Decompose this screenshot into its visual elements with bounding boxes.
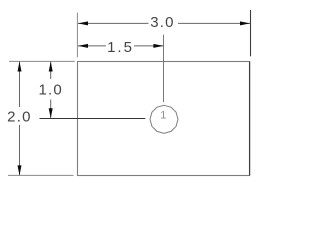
svg-text:1: 1 (160, 110, 166, 122)
arrowhead 1.5 left (78, 44, 88, 48)
extension line right vertical (3.0 dim) (250, 10, 252, 56)
dimension line 3.0 left segment (78, 22, 149, 24)
arrowhead 1.0 top (49, 62, 53, 72)
part outline rectangle (78, 62, 250, 176)
arrowhead 3.0 left (78, 21, 88, 25)
extension line bottom-left horizontal (8, 174, 74, 176)
dimension line 1.5 left segment (78, 45, 106, 47)
dimension line 2.0 upper segment (19, 62, 21, 108)
extension line hole vertical (1.5 dim) (163, 35, 165, 102)
dimension line 1.0 lower segment (50, 100, 52, 119)
extension line hole-center horizontal (40, 118, 146, 120)
arrowhead 3.0 right (240, 21, 250, 25)
extension line left vertical (top dims) (76, 13, 78, 58)
arrowhead 1.5 right (153, 44, 163, 48)
dimension line 2.0 lower segment (19, 125, 21, 175)
svg-text:3.0: 3.0 (150, 14, 174, 31)
extension line top-left horizontal (9, 60, 75, 62)
svg-text:2.0: 2.0 (7, 109, 31, 126)
right edge (darker) (249, 62, 251, 176)
dimension line 1.5 right segment (134, 45, 163, 47)
arrowhead 2.0 bottom (18, 165, 22, 175)
dimension line 3.0 right segment (178, 22, 250, 24)
svg-text:1.0: 1.0 (38, 81, 62, 98)
dimension line 1.0 upper segment (50, 62, 52, 80)
arrowhead 2.0 top (18, 62, 22, 72)
arrowhead 1.0 bottom (49, 108, 53, 118)
svg-text:1.5: 1.5 (107, 39, 134, 56)
balloon circle 1 (150, 105, 178, 133)
